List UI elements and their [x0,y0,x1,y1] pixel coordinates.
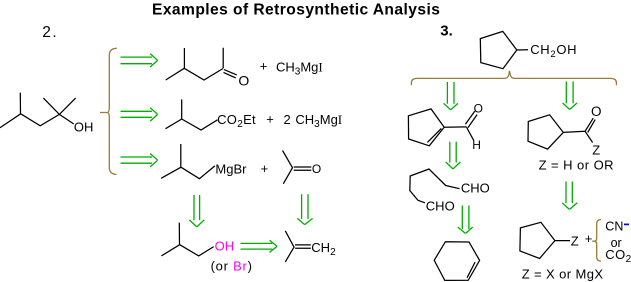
svg-text:+: + [261,161,269,176]
svg-text:2: 2 [284,112,291,127]
svg-text:CHO: CHO [426,199,455,214]
olive curly brace grouping routes of 2 [100,48,117,174]
svg-text:H: H [472,138,481,152]
svg-text:+: + [266,111,274,126]
svg-text:+: + [585,231,593,246]
svg-text:Examples of Retrosynthetic Ana: Examples of Retrosynthetic Analysis [152,1,440,18]
retro arrow down D2 (right route of 3) [563,82,577,110]
molecule isobutanol skeleton [161,223,213,256]
C=O double bond of ketone [224,70,237,78]
molecule acetone skeleton [283,151,312,184]
svg-text:Z = X or MgX: Z = X or MgX [522,266,604,281]
olive curly brace for CN/CO2 [592,220,601,262]
ring double bond of cyclopentene [427,129,441,143]
svg-text:Z: Z [571,233,579,248]
C-H bond of aldehyde [466,127,473,141]
molecule isobutylmagnesium bromide skeleton [161,144,215,179]
retro arrow down B (from acetone route) [297,194,312,224]
molecule cyclopentanecarbonyl-Z ring [528,115,585,149]
molecule hexanedial skeleton [410,169,460,203]
svg-text:(or Br): (or Br) [211,259,253,274]
molecule 2,4-dimethyl-2-pentanol skeleton [0,93,76,128]
svg-text:MgBr: MgBr [215,162,247,177]
svg-text:CHO: CHO [461,181,490,196]
svg-text:CN: CN [605,220,623,234]
svg-text:O: O [312,162,321,176]
svg-text:O: O [474,102,483,116]
svg-text:3.: 3. [440,23,453,40]
svg-text:OH: OH [215,238,235,253]
molecule cyclopentyl-Z ring [520,222,570,258]
C=O double bond of acyl group [585,118,595,132]
molecule cyclopentene-1-carbaldehyde ring [408,109,444,146]
retro arrow down D5 (to cyclopentyl-Z) [562,182,577,210]
retro arrow down D1 (left route of 3) [444,82,458,110]
molecule 4-methyl-2-pentanone skeleton [166,48,224,80]
superscript minus of CN [624,223,629,225]
C-Z bond [585,131,593,142]
svg-text:O: O [591,104,602,119]
retro arrow down D3 (CHO to dialdehyde) [446,142,461,169]
molecule cyclopentylmethanol ring [480,31,528,68]
svg-text:Z: Z [592,142,600,157]
retro arrow 1 (horizontal) [121,54,158,67]
retro arrow 2 (horizontal) [121,108,158,121]
svg-text:OH: OH [74,120,94,135]
molecule ethyl isovalerate skeleton [166,99,218,130]
svg-text:2.: 2. [42,24,58,41]
svg-text:Z = H or OR: Z = H or OR [539,157,614,172]
molecule cyclohexene ring [434,242,479,281]
svg-text:+: + [260,59,268,74]
olive horizontal brace under cyclopentylmethanol [411,71,616,85]
retro arrow down D4 (dialdehyde to cyclohexene) [458,206,473,234]
retro arrow 4 (horizontal, to isobutylene) [241,240,278,252]
molecule isobutylene skeleton [285,231,311,262]
bond ring to CHO carbon [444,126,466,128]
ring double bond of cyclohexene [467,262,475,278]
retro arrow down A (from MgBr route) [189,195,204,227]
svg-text:O: O [238,72,249,88]
C=O double bond of aldehyde [465,111,477,128]
retro arrow 3 (horizontal) [121,154,158,167]
